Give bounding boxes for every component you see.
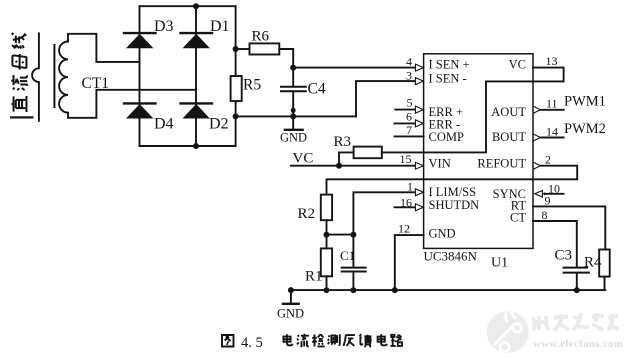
svg-text:R5: R5: [243, 77, 261, 94]
wire bridge bottom rail: [140, 145, 236, 147]
svg-text:8: 8: [542, 208, 548, 222]
diode D3: [124, 33, 156, 48]
pin 2 arrowhead: [533, 162, 540, 169]
pin 6 arrowhead: [415, 120, 423, 127]
transformer CT1 secondary winding: [59, 42, 68, 113]
wire pin 11 AOUT: [540, 109, 563, 111]
wire main ground rail: [291, 289, 605, 291]
svg-text:I SEN -: I SEN -: [429, 71, 467, 85]
svg-text:D2: D2: [209, 116, 229, 133]
node junction top rail: [193, 3, 199, 9]
svg-text:C1: C1: [340, 248, 355, 263]
svg-text:D3: D3: [154, 18, 174, 35]
node junction C3 bottom: [574, 287, 580, 293]
svg-text:CT: CT: [510, 211, 526, 225]
svg-text:2: 2: [545, 152, 551, 166]
pin 10 arrowhead: [535, 191, 543, 198]
capacitor C3: [564, 267, 588, 269]
wire pin 9 RT to R4: [533, 206, 605, 249]
svg-text:I SEN +: I SEN +: [429, 58, 470, 72]
wire pin 2 REFOUT loop to R2: [327, 166, 578, 195]
resistor R2: [321, 195, 332, 221]
svg-text:REFOUT: REFOUT: [477, 157, 526, 171]
capacitor C1: [352, 235, 354, 268]
wire pin 10 SYNC stub: [547, 193, 564, 195]
svg-text:www.elecfans.com: www.elecfans.com: [533, 338, 623, 350]
svg-text:4: 4: [406, 55, 412, 69]
wire bridge left branch: [139, 6, 141, 146]
caption 图 4.5 电流检测反馈电路: [222, 334, 402, 351]
pin 5 arrowhead: [415, 106, 423, 113]
wire pin 8 CT to C3: [533, 221, 577, 268]
node junction R5 bottom: [233, 113, 239, 119]
node junction rail left end: [288, 287, 294, 293]
svg-text:3: 3: [406, 69, 412, 83]
resistor R4: [599, 250, 610, 277]
node junction C1 top: [350, 232, 356, 238]
pin 4 arrowhead: [415, 64, 423, 71]
wire CT1 top terminal to bridge left midpoint: [68, 34, 140, 62]
svg-text:U1: U1: [491, 256, 508, 271]
svg-text:7: 7: [406, 123, 412, 137]
svg-text:4. 5: 4. 5: [241, 335, 263, 351]
svg-text:1: 1: [407, 180, 413, 194]
wire pin 6 ERR- stub: [395, 122, 416, 124]
svg-text:GND: GND: [280, 131, 307, 145]
wire pin 3 I SEN-: [356, 81, 416, 116]
svg-text:GND: GND: [277, 307, 304, 321]
pin 1 arrowhead: [415, 189, 423, 196]
node DC bus label 直流母线 (rotated): [10, 33, 34, 118]
svg-text:SHUTDN: SHUTDN: [429, 198, 480, 212]
wire CT1 bottom terminal to bridge right midpoint: [68, 90, 196, 118]
svg-text:PWM1: PWM1: [564, 94, 606, 110]
ground symbol main: [290, 290, 292, 303]
svg-text:14: 14: [546, 124, 558, 138]
pin 11 arrowhead: [533, 106, 540, 113]
svg-text:GND: GND: [429, 227, 456, 241]
op-amp U1 UC3846N IC body: [424, 54, 533, 249]
svg-text:PWM2: PWM2: [564, 121, 606, 137]
node junction R2/R1: [324, 232, 330, 238]
svg-text:6: 6: [406, 109, 412, 123]
diode D4: [124, 103, 156, 118]
svg-text:5: 5: [407, 96, 413, 110]
svg-text:9: 9: [545, 194, 551, 208]
wire pin 7 COMP stub: [395, 135, 424, 137]
svg-text:VC: VC: [509, 58, 526, 72]
svg-text:D1: D1: [210, 18, 230, 35]
svg-text:13: 13: [546, 54, 558, 68]
svg-text:11: 11: [546, 97, 558, 111]
svg-text:C4: C4: [308, 81, 326, 98]
svg-text:R2: R2: [298, 206, 316, 222]
svg-text:VC: VC: [293, 151, 314, 167]
svg-text:16: 16: [400, 195, 412, 209]
wire pin 12 GND: [395, 235, 424, 290]
svg-text:C3: C3: [555, 248, 573, 264]
svg-text:AOUT: AOUT: [491, 105, 526, 119]
pin 15 arrowhead: [415, 162, 423, 169]
svg-text:R4: R4: [584, 255, 602, 271]
wire bridge top rail: [140, 5, 236, 7]
wire R2 bottom to C1 top: [327, 234, 354, 236]
svg-text:CT1: CT1: [82, 75, 110, 92]
resistor R5: [231, 76, 242, 101]
wire pin 14 BOUT: [540, 137, 563, 139]
node DC bus primary conductor: [32, 33, 39, 121]
node junction R1 bottom: [324, 287, 330, 293]
node junction VC/R3: [336, 163, 342, 169]
svg-text:I LIM/SS: I LIM/SS: [429, 185, 477, 199]
transformer CT1 core bar: [53, 45, 55, 107]
svg-text:R1: R1: [305, 269, 323, 285]
wire pin 1 I LIM/SS: [353, 192, 415, 234]
wire VC supply to pin 15 VIN: [291, 165, 416, 167]
resistor R1: [326, 235, 328, 249]
WATERMARK: [487, 305, 624, 353]
node junction C1 bottom: [350, 287, 356, 293]
pin 14 arrowhead: [533, 134, 540, 141]
svg-text:VIN: VIN: [429, 157, 451, 171]
wire bridge right branch: [195, 6, 197, 146]
node junction R5/R6: [233, 46, 239, 52]
node junction C4 top / pin4 wire: [290, 65, 296, 71]
wire pin 16 SHUTDN stub: [395, 206, 416, 208]
svg-text:12: 12: [398, 222, 410, 236]
diode D1: [181, 33, 213, 48]
diode D2: [181, 103, 213, 118]
pin 3 arrowhead: [415, 78, 423, 85]
ground symbol under C4: [292, 116, 294, 128]
svg-text:UC3846N: UC3846N: [424, 249, 478, 264]
wire R3 to pin 13 VC loop: [382, 68, 564, 153]
svg-text:15: 15: [400, 152, 412, 166]
wire pin 4 I SEN+: [293, 67, 416, 69]
wire top rail down to R5/R6 node: [235, 6, 237, 76]
svg-text:BOUT: BOUT: [492, 130, 526, 144]
svg-text:R3: R3: [334, 134, 352, 150]
node junction bottom rail: [193, 143, 199, 149]
svg-text:D4: D4: [154, 116, 174, 133]
capacitor C4: [281, 86, 306, 88]
wire pin 5 ERR+ stub: [395, 109, 416, 111]
node junction pin12 ground: [392, 287, 398, 293]
wire sense ground rail: [236, 115, 356, 117]
pin 16 arrowhead: [415, 204, 423, 211]
svg-text:R6: R6: [252, 29, 270, 45]
svg-text:COMP: COMP: [429, 130, 464, 144]
resistor R6: [236, 48, 250, 50]
node junction C4 bottom: [291, 108, 296, 113]
resistor R3: [339, 152, 354, 165]
